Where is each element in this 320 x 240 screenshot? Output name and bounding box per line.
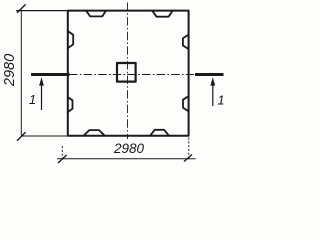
svg-text:2980: 2980 [113,141,145,156]
svg-text:1: 1 [217,93,224,108]
svg-text:1: 1 [29,92,36,107]
svg-text:2980: 2980 [2,54,18,87]
